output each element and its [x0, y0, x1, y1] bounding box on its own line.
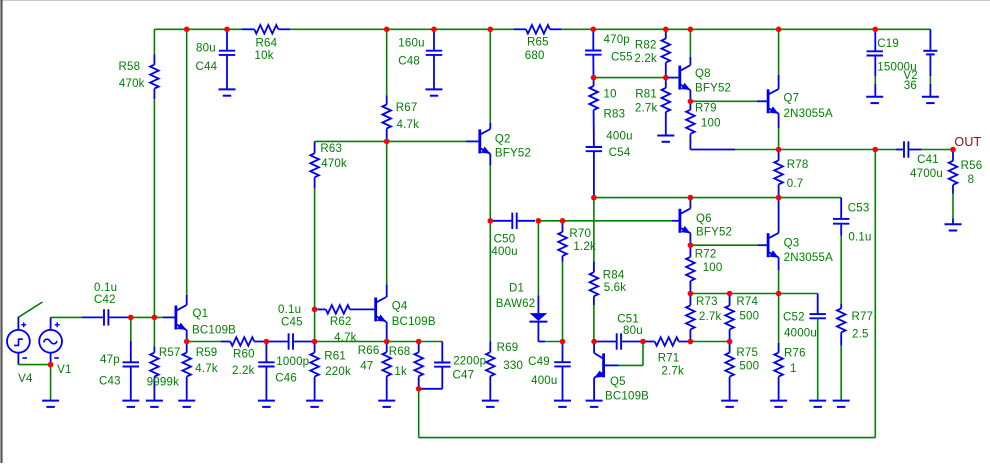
svg-text:160u: 160u [398, 37, 424, 49]
svg-text:2.7k: 2.7k [699, 311, 722, 323]
svg-text:BFY52: BFY52 [696, 227, 732, 239]
svg-text:100: 100 [703, 262, 723, 274]
svg-text:R79: R79 [695, 103, 717, 115]
svg-text:R77: R77 [852, 311, 874, 323]
svg-text:10k: 10k [255, 50, 274, 62]
svg-text:R62: R62 [330, 316, 352, 328]
svg-text:R81: R81 [635, 89, 657, 101]
svg-text:R60: R60 [233, 349, 255, 361]
svg-text:C19: C19 [877, 38, 899, 50]
svg-text:R65: R65 [527, 37, 549, 49]
svg-text:C44: C44 [196, 61, 218, 73]
svg-text:9999k: 9999k [147, 377, 179, 389]
svg-text:2.5: 2.5 [852, 329, 869, 341]
svg-text:400u: 400u [491, 246, 517, 258]
svg-text:Q2: Q2 [495, 134, 511, 146]
svg-text:0.1u: 0.1u [278, 304, 301, 316]
svg-text:R83: R83 [604, 109, 626, 121]
svg-text:4.7k: 4.7k [195, 363, 218, 375]
svg-text:R75: R75 [736, 347, 758, 359]
svg-text:C49: C49 [528, 356, 550, 368]
svg-text:0.1u: 0.1u [848, 232, 871, 244]
svg-text:470k: 470k [119, 78, 145, 90]
svg-text:C48: C48 [398, 56, 420, 68]
svg-text:BFY52: BFY52 [495, 148, 531, 160]
svg-text:C47: C47 [453, 370, 475, 382]
svg-text:BAW62: BAW62 [496, 298, 536, 310]
svg-text:R78: R78 [787, 159, 809, 171]
svg-text:OUT: OUT [954, 135, 981, 149]
svg-text:500: 500 [739, 361, 759, 373]
svg-text:R58: R58 [119, 61, 141, 73]
svg-text:10: 10 [604, 89, 617, 101]
svg-text:Q8: Q8 [695, 68, 711, 80]
svg-text:R56: R56 [961, 160, 983, 172]
svg-text:330: 330 [503, 360, 523, 372]
svg-text:100: 100 [701, 118, 721, 130]
svg-text:BC109B: BC109B [192, 325, 236, 337]
svg-text:Q4: Q4 [392, 301, 408, 313]
svg-text:0.7: 0.7 [787, 178, 804, 190]
svg-text:R63: R63 [320, 143, 342, 155]
svg-text:1k: 1k [394, 366, 407, 378]
svg-text:4.7k: 4.7k [397, 119, 420, 131]
svg-text:R69: R69 [497, 342, 519, 354]
svg-text:Q6: Q6 [696, 213, 712, 225]
svg-text:2.2k: 2.2k [232, 365, 255, 377]
svg-text:1.2k: 1.2k [573, 241, 596, 253]
svg-text:V1: V1 [57, 364, 71, 376]
svg-text:Q1: Q1 [193, 308, 209, 320]
svg-text:BC109B: BC109B [392, 316, 436, 328]
svg-text:470k: 470k [321, 158, 347, 170]
svg-text:C52: C52 [783, 312, 805, 324]
svg-text:R70: R70 [569, 228, 591, 240]
svg-text:2.2k: 2.2k [634, 53, 657, 65]
svg-text:47: 47 [360, 360, 373, 372]
svg-text:R68: R68 [389, 346, 411, 358]
svg-text:2200p: 2200p [453, 356, 486, 368]
svg-text:C43: C43 [99, 376, 121, 388]
svg-text:R61: R61 [324, 351, 346, 363]
svg-text:0.1u: 0.1u [94, 282, 117, 294]
svg-text:2N3055A: 2N3055A [784, 108, 833, 120]
svg-text:R72: R72 [695, 249, 717, 261]
svg-text:C54: C54 [609, 147, 631, 159]
svg-text:Q5: Q5 [610, 376, 626, 388]
svg-text:C46: C46 [275, 373, 297, 385]
svg-text:400u: 400u [606, 131, 632, 143]
svg-text:Q7: Q7 [784, 93, 800, 105]
svg-text:8: 8 [968, 174, 975, 186]
svg-text:5.6k: 5.6k [604, 282, 627, 294]
svg-text:BFY52: BFY52 [695, 83, 731, 95]
svg-text:47p: 47p [100, 354, 120, 366]
svg-text:D1: D1 [509, 283, 524, 295]
svg-text:80u: 80u [623, 325, 643, 337]
svg-text:4700u: 4700u [910, 168, 943, 180]
svg-text:V4: V4 [18, 373, 33, 385]
svg-text:R66: R66 [358, 345, 380, 357]
svg-text:C51: C51 [617, 314, 639, 326]
svg-text:1: 1 [790, 363, 797, 375]
svg-text:4.7k: 4.7k [334, 332, 357, 344]
svg-text:R71: R71 [658, 353, 680, 365]
svg-text:400u: 400u [531, 375, 557, 387]
svg-text:R76: R76 [784, 348, 806, 360]
svg-text:2.7k: 2.7k [661, 366, 684, 378]
svg-text:2N3055A: 2N3055A [784, 252, 833, 264]
svg-text:C42: C42 [94, 294, 116, 306]
svg-text:220k: 220k [325, 366, 351, 378]
svg-text:C55: C55 [611, 52, 633, 64]
svg-text:680: 680 [525, 50, 545, 62]
svg-text:R82: R82 [635, 39, 657, 51]
svg-text:80u: 80u [196, 43, 216, 55]
svg-text:4000u: 4000u [784, 328, 817, 340]
svg-text:36: 36 [904, 80, 917, 92]
svg-text:2.7k: 2.7k [635, 102, 658, 114]
svg-text:R64: R64 [256, 37, 278, 49]
svg-text:R67: R67 [396, 102, 418, 114]
svg-text:470p: 470p [604, 34, 630, 46]
svg-text:R84: R84 [603, 269, 625, 281]
svg-text:1000p: 1000p [276, 356, 309, 368]
svg-text:C53: C53 [848, 203, 870, 215]
svg-text:R73: R73 [696, 296, 718, 308]
svg-text:C41: C41 [917, 154, 939, 166]
svg-text:500: 500 [739, 311, 759, 323]
svg-text:R74: R74 [736, 296, 758, 308]
svg-text:C50: C50 [494, 233, 516, 245]
svg-text:R59: R59 [196, 347, 218, 359]
svg-text:C45: C45 [281, 317, 303, 329]
svg-text:BC109B: BC109B [605, 391, 649, 403]
svg-text:R57: R57 [159, 347, 181, 359]
svg-text:Q3: Q3 [784, 238, 800, 250]
